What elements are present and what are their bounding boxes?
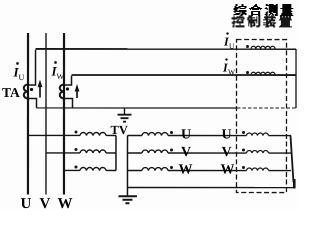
TV primary row V [46,152,80,154]
device dashed box [236,40,286,193]
caption char 控 [232,15,245,27]
TV secondary row W [127,169,142,171]
CT TA2 bottom lead [64,98,73,108]
bus V [45,33,47,194]
caption char 置 [279,15,292,27]
TV primary star vertical [115,135,117,170]
caption char 合 [249,4,262,16]
caption char 制 [247,15,260,27]
CT TA1 polarity dot [30,88,33,91]
CT TA2 current arrow [76,90,78,98]
CT return wire inside device [237,107,296,109]
svg-text:U: U [181,128,191,143]
svg-text:W: W [57,196,72,209]
CT TA1 bottom lead [28,98,37,108]
device coil W [236,170,246,172]
wire iW to device [72,74,296,76]
svg-text:U: U [20,196,31,209]
CT TA2 secondary winding [60,84,64,98]
wire iU to device [36,48,297,50]
bus U [27,33,29,195]
TV secondary row V [127,152,142,154]
svg-text:TA: TA [2,85,20,100]
CT TA1 current arrow [39,85,41,97]
secondary neutral bottom wire [127,186,294,188]
TV secondary row U [127,134,142,136]
device voltage collector vertical [290,136,293,183]
svg-text:U: U [229,42,235,51]
device coil U [236,135,246,137]
device coil iW [246,71,249,74]
label iU left [13,62,25,82]
svg-text:W: W [178,163,192,178]
label iU right [223,32,235,50]
ground G2 [118,195,136,197]
caption zonghe celiang kongzhi zhuangzhi (drawn strokes) [232,4,294,27]
right vertical CT return [295,49,297,108]
caption char 装 [263,15,276,27]
bus W [63,33,65,194]
caption char 测 [265,4,278,16]
label iW left [51,61,65,81]
CT TA2 top lead [64,76,72,85]
TV primary row U [28,134,80,136]
svg-text:V: V [39,196,50,209]
device coil V [236,152,246,154]
caption char 综 [234,4,247,16]
label iW right [222,58,236,76]
svg-text:TV: TV [110,123,127,137]
svg-text:U: U [221,128,231,143]
svg-text:W: W [57,72,65,81]
caption char 量 [280,4,293,16]
CT return wire [36,107,237,109]
svg-text:U: U [19,73,25,82]
CT TA1 top lead [28,50,36,85]
TV primary row W [64,169,80,171]
svg-text:W: W [220,163,234,178]
svg-text:V: V [181,145,191,160]
CT TA2 polarity dot [66,87,69,90]
svg-text:V: V [221,145,231,160]
TV secondary star vertical [126,135,128,195]
device coil iU [246,45,249,48]
CT TA1 secondary winding [24,84,28,98]
ground G1 [123,108,125,114]
svg-text:W: W [228,68,236,77]
